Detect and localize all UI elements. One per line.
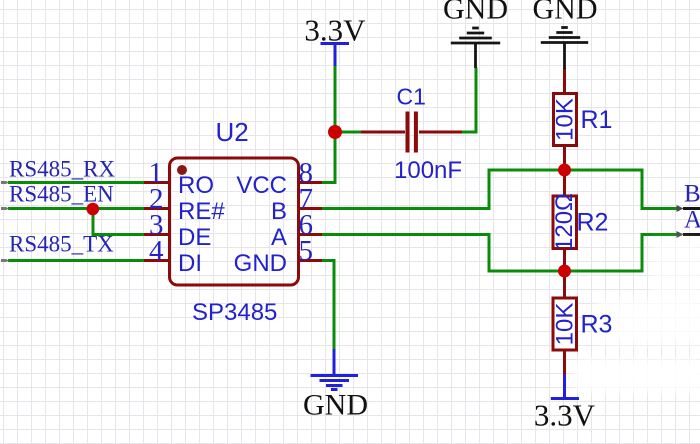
svg-text:SP3485: SP3485 — [192, 299, 277, 326]
svg-text:DE: DE — [178, 224, 211, 251]
svg-text:RS485_EN: RS485_EN — [9, 182, 114, 207]
svg-text:RO: RO — [178, 172, 214, 199]
svg-text:10K: 10K — [552, 98, 579, 141]
svg-text:RE#: RE# — [178, 198, 225, 225]
svg-text:RS485_TX: RS485_TX — [9, 232, 114, 257]
svg-text:B: B — [271, 198, 287, 225]
svg-text:3.3V: 3.3V — [534, 398, 596, 433]
svg-text:DI: DI — [178, 250, 202, 277]
svg-text:4: 4 — [149, 235, 164, 267]
svg-text:A: A — [271, 224, 287, 251]
svg-text:GND: GND — [303, 389, 368, 422]
svg-text:RS485_RX: RS485_RX — [9, 157, 115, 182]
svg-text:GND: GND — [443, 0, 508, 26]
svg-text:U2: U2 — [216, 117, 249, 147]
svg-text:10K: 10K — [552, 303, 579, 346]
svg-text:5: 5 — [299, 235, 314, 267]
svg-text:C1: C1 — [397, 84, 426, 110]
svg-text:VCC: VCC — [236, 172, 287, 199]
svg-text:R2: R2 — [577, 209, 609, 237]
svg-text:GND: GND — [533, 0, 598, 26]
svg-text:GND: GND — [234, 250, 287, 277]
svg-text:3.3V: 3.3V — [304, 13, 366, 48]
svg-text:R1: R1 — [581, 106, 613, 134]
svg-text:100nF: 100nF — [394, 157, 462, 184]
svg-text:R3: R3 — [581, 311, 613, 339]
svg-text:120Ω: 120Ω — [551, 193, 578, 251]
svg-text:A: A — [684, 207, 700, 234]
svg-text:B: B — [684, 181, 700, 208]
